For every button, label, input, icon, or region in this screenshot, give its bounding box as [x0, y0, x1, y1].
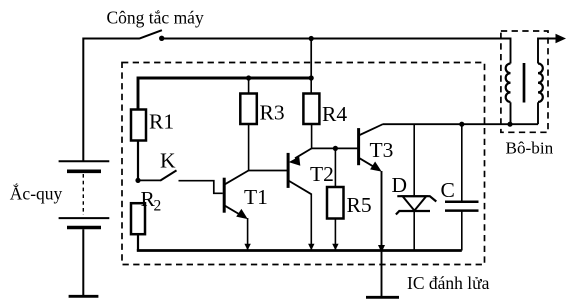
wire: T3 emitter down through rail to ground	[381, 171, 383, 297]
IC đánh lửa dashed box	[122, 63, 490, 294]
junction arrow: T2 collector at rail	[308, 244, 314, 251]
svg-text:T1: T1	[244, 185, 268, 209]
wire: R1 to node K	[137, 141, 139, 181]
coil core bar	[523, 63, 526, 103]
ground: battery bottom terminal bar	[69, 295, 99, 298]
svg-text:T3: T3	[370, 138, 394, 162]
wire: inner supply rail (thick) with corner down to R1	[138, 78, 311, 110]
wire: T2 collector down to rail	[310, 194, 312, 250]
wire: K contact to T1 base	[179, 181, 223, 194]
resistor R3	[240, 78, 284, 125]
resistor R5	[327, 148, 372, 218]
svg-text:IC đánh lửa: IC đánh lửa	[407, 273, 490, 293]
zener diode D	[392, 124, 437, 250]
svg-text:R3: R3	[260, 101, 285, 125]
svg-text:Bô-bin: Bô-bin	[506, 139, 554, 158]
node: K junction dot	[135, 178, 140, 183]
svg-text:T2: T2	[310, 162, 334, 186]
coil secondary winding	[538, 64, 543, 102]
wire: bottom ground rail (thick)	[137, 249, 462, 252]
node: junction on top wire	[309, 36, 314, 41]
switch Công tắc máy (main switch blade)	[107, 8, 204, 42]
output arrow to spark plug	[556, 34, 567, 44]
svg-text:R4: R4	[322, 102, 347, 126]
coil primary winding	[506, 64, 511, 102]
wire: T1 emitter down to rail	[247, 218, 249, 250]
svg-text:Ắc-quy: Ắc-quy	[10, 184, 63, 204]
wire: switch to node over R4	[164, 38, 312, 40]
resistor R1	[131, 110, 174, 141]
wire: primary coil top lead	[510, 38, 512, 64]
wire: T3 collector rail to ignition coil	[383, 123, 538, 125]
battery Ắc-quy	[10, 161, 110, 227]
switch K	[138, 149, 177, 181]
node: capacitor junction dot	[459, 122, 464, 127]
svg-text:K: K	[160, 149, 176, 173]
node: R3 top junction	[246, 75, 251, 80]
wire: battery positive up and across to main switch	[83, 39, 139, 162]
resistor R2	[131, 187, 161, 234]
transistor T1	[224, 171, 268, 220]
wire: R4 bottom to node A	[311, 124, 313, 148]
wire: secondary bottom lead with corner	[537, 102, 539, 124]
wire: secondary top lead to output	[538, 39, 557, 64]
wire: node down into IC box to supply rail	[310, 39, 312, 79]
wire: R3 bottom to T1 collector node	[248, 124, 250, 171]
node: emitter/ground junction on rail	[378, 245, 385, 253]
svg-text:R1: R1	[149, 110, 174, 134]
svg-text:C: C	[441, 178, 455, 202]
transistor T2	[288, 148, 334, 194]
wire: R5 bottom to rail	[334, 219, 336, 250]
svg-text:Công tắc máy: Công tắc máy	[107, 8, 204, 28]
wire: battery negative down	[82, 229, 84, 296]
junction arrow: R5 at rail	[332, 244, 338, 251]
node: coil common junction dot	[507, 122, 512, 127]
Bô-bin dashed box	[501, 31, 554, 158]
node: R5 top junction dot	[333, 146, 338, 151]
svg-text:2: 2	[154, 198, 162, 215]
wire: T1 collector to T2 base	[249, 170, 289, 172]
svg-text:D: D	[392, 173, 408, 197]
junction arrow: T1 emitter at rail	[244, 244, 250, 251]
svg-text:R5: R5	[347, 193, 372, 217]
node A wire: R4/T2 emitter node to T3 base	[312, 147, 359, 149]
node: supply rail right end junction	[309, 75, 314, 80]
resistor R4	[303, 78, 347, 126]
wire: node to ignition coil primary	[311, 38, 510, 40]
wire: primary bottom lead	[510, 102, 512, 124]
capacitor C	[441, 124, 479, 250]
ground: IC ground terminal bar	[366, 296, 399, 299]
transistor T3	[359, 124, 394, 172]
wire: R2 to bottom rail	[137, 234, 139, 250]
